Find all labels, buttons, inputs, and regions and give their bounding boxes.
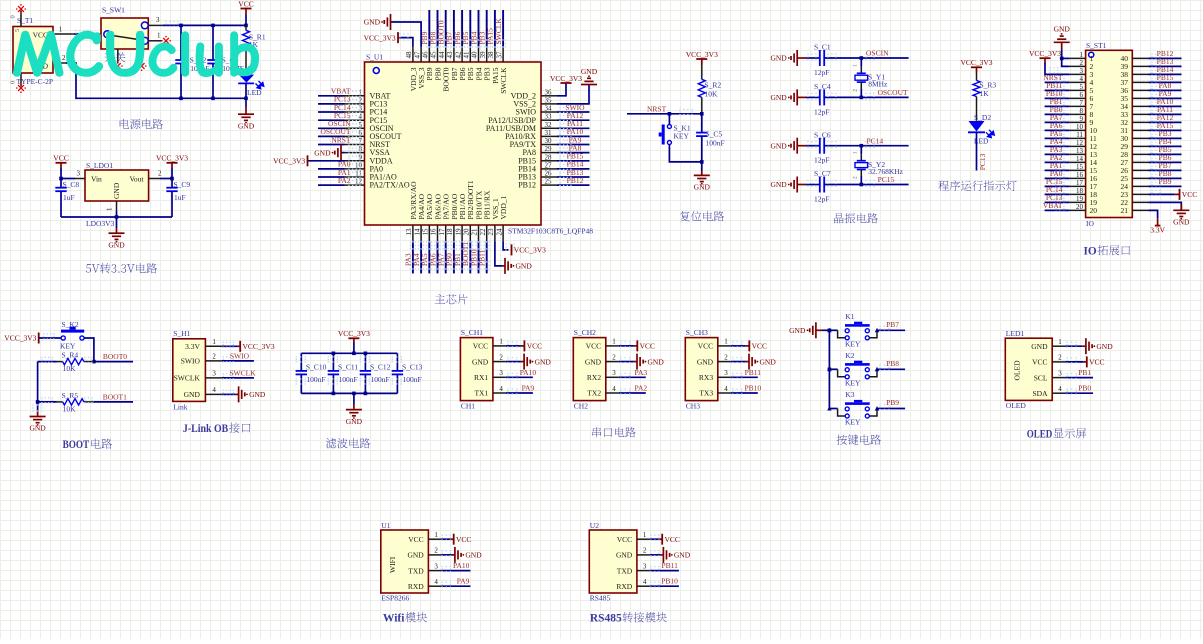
MCUclub logo	[14, 32, 258, 77]
svg-text:1K: 1K	[980, 89, 990, 98]
svg-text:S_C10: S_C10	[306, 362, 327, 371]
wire net PB0 (OLED)	[1065, 389, 1093, 395]
pin 16 of ST1	[1070, 171, 1086, 179]
ground GND (reset)	[694, 162, 711, 192]
wire net OSCOUT	[861, 93, 908, 100]
pin 4 of LED1	[1052, 385, 1065, 393]
net label PC15	[878, 175, 895, 184]
svg-text:GND: GND	[184, 390, 201, 399]
svg-text:3: 3	[612, 369, 616, 377]
pin 1 of ST1	[1070, 51, 1086, 59]
wire U1 VSSA to GND	[341, 147, 361, 153]
capacitor C12 (100nF)	[360, 353, 391, 393]
svg-text:VCC: VCC	[752, 342, 767, 351]
svg-text:Vin: Vin	[91, 175, 102, 184]
svg-text:15: 15	[1076, 163, 1084, 171]
svg-text:RX2: RX2	[587, 373, 601, 382]
svg-text:1: 1	[359, 88, 363, 96]
net label PA8 (ST1)	[1159, 81, 1172, 90]
pin 45 of U1 (PB8)	[430, 47, 443, 81]
net label PA12	[567, 111, 584, 120]
net label PA9 (U1)	[457, 577, 470, 586]
net label PB11	[745, 368, 762, 377]
svg-text:SWIO: SWIO	[181, 357, 201, 366]
net label BOOT0	[437, 20, 446, 44]
wire from U1 pin 25	[557, 180, 590, 186]
svg-text:STM32F103C8T6_LQFP48: STM32F103C8T6_LQFP48	[508, 227, 593, 236]
svg-text:IO: IO	[1086, 219, 1094, 228]
svg-text:GND: GND	[770, 180, 787, 189]
svg-text:21: 21	[1121, 206, 1129, 215]
pin 5 of T1 (top)	[10, 11, 22, 27]
wire CH3 GND	[731, 357, 749, 363]
svg-text:S_C1: S_C1	[814, 43, 831, 52]
junction at D1 bottom	[244, 97, 248, 101]
svg-text:10K: 10K	[63, 364, 77, 373]
svg-text:S_R4: S_R4	[62, 351, 79, 360]
wire CH2 RX	[619, 373, 646, 379]
svg-text:S_C4: S_C4	[814, 82, 831, 91]
ground GND (CH1)	[524, 354, 551, 370]
svg-text:OLED: OLED	[1027, 429, 1053, 441]
pin 19 of ST1	[1070, 195, 1086, 203]
crystal Y2 (32.768KHz)	[853, 146, 904, 185]
wire to U1 pin 38	[492, 10, 498, 48]
net label SWIO	[565, 103, 585, 112]
svg-text:WIFI: WIFI	[388, 556, 397, 573]
wire from U1 pin 33	[557, 115, 590, 121]
push button K2 (KEY)	[60, 320, 84, 351]
wire ST1 pin 33	[1149, 110, 1182, 116]
svg-text:S_CH2: S_CH2	[574, 328, 596, 337]
ground GND (keys)	[789, 322, 829, 338]
pin 4 of CH2	[606, 385, 619, 393]
net label PB10 (U2)	[661, 577, 678, 586]
net label PC14	[867, 136, 884, 145]
svg-text:3: 3	[499, 369, 503, 377]
power flag VCC_3V3 (ST1)	[1029, 49, 1061, 58]
svg-text:GND: GND	[1173, 218, 1190, 227]
net label PB1 (ST1)	[1050, 97, 1063, 106]
ground GND (PC14 side)	[770, 138, 806, 154]
svg-text:5: 5	[14, 29, 21, 32]
svg-text:K3: K3	[845, 390, 854, 399]
svg-text:2: 2	[434, 547, 438, 555]
net label PB13 (ST1)	[1157, 57, 1174, 66]
pin 1 of U1 (VBAT)	[345, 88, 391, 100]
svg-text:12: 12	[355, 178, 363, 186]
power flag VCC (CH3)	[749, 340, 767, 351]
net label PA9	[522, 384, 535, 393]
wire U1 VDD_1 to VCC_3V3	[503, 241, 515, 250]
svg-text:18: 18	[1076, 187, 1084, 195]
svg-text:VCC_3V3: VCC_3V3	[273, 157, 305, 166]
svg-text:S_ST1: S_ST1	[1086, 41, 1107, 50]
wire from U1 pin 15	[426, 241, 432, 273]
pin 28 of U1 (PB15)	[518, 153, 557, 165]
svg-text:GND: GND	[108, 240, 125, 249]
svg-text:100nF: 100nF	[339, 375, 358, 384]
LED D2	[968, 113, 994, 146]
wire ST1 pin 10	[1045, 126, 1070, 132]
svg-text:KEY: KEY	[845, 418, 861, 427]
section label BOOT电路	[63, 439, 112, 452]
ground GND (CH3)	[749, 354, 776, 370]
pin 1 of LDO1	[106, 201, 117, 211]
svg-text:41: 41	[463, 51, 471, 59]
svg-text:PB9: PB9	[886, 398, 899, 407]
svg-text:BOOT: BOOT	[63, 439, 90, 451]
svg-text:PC15: PC15	[878, 175, 895, 184]
wire ST1 pin 24	[1149, 182, 1182, 188]
svg-text:GND: GND	[238, 121, 255, 130]
wire to U1 pin 6	[318, 131, 361, 137]
pin 27 of U1 (PB14)	[518, 161, 557, 173]
svg-text:4: 4	[359, 113, 363, 121]
svg-text:KEY: KEY	[845, 378, 861, 387]
pin 4 of CH1	[493, 385, 506, 393]
wire U1 VSS_1 to GND	[495, 241, 505, 266]
svg-text:1: 1	[853, 151, 859, 154]
svg-text:GND: GND	[581, 67, 598, 76]
svg-text:GND: GND	[516, 262, 533, 271]
wire net BOOT0	[94, 361, 133, 363]
wire ST1 pin 23 to VCC	[1149, 190, 1180, 196]
net label BOOT1	[461, 242, 470, 266]
pin 19 of U1 (PB1/AO)	[454, 193, 467, 241]
svg-text:45: 45	[430, 51, 438, 59]
svg-text:38: 38	[487, 51, 495, 59]
svg-text:RS485: RS485	[590, 594, 611, 603]
net label PB11 (U2)	[661, 561, 678, 570]
pin 1 of SW1	[148, 32, 162, 41]
svg-text:1uF: 1uF	[174, 193, 186, 202]
net label SWCLK	[229, 368, 256, 377]
ground GND (OLED)	[1086, 338, 1113, 354]
net label PB14	[567, 160, 584, 169]
pin 43 of U1 (PB7)	[446, 47, 459, 81]
svg-text:VCC_3V3: VCC_3V3	[243, 342, 275, 351]
wire to U1 pin 40	[475, 10, 481, 48]
svg-text:10: 10	[355, 161, 363, 169]
svg-text:GND: GND	[1054, 25, 1071, 34]
MCU U1 (STM32F103C8T6_LQFP48)	[365, 53, 594, 236]
net label PB8 (key)	[886, 359, 899, 368]
wire from U1 pin 21	[475, 241, 481, 273]
svg-text:2: 2	[1080, 59, 1084, 67]
pin 15 of ST1	[1070, 163, 1086, 171]
svg-text:3: 3	[212, 369, 216, 377]
pin 3 of LDO1	[75, 170, 85, 179]
net label PB10	[469, 249, 478, 266]
ground GND (ST1 right)	[1173, 204, 1190, 226]
net label PB4	[469, 31, 478, 44]
pin 3 of CH1	[493, 369, 506, 377]
pin 29 of ST1	[1132, 145, 1148, 147]
svg-text:OSCIN: OSCIN	[866, 49, 889, 58]
net label PB7	[445, 31, 454, 44]
svg-text:16: 16	[430, 228, 438, 236]
svg-text:100nF: 100nF	[371, 375, 390, 384]
svg-text:PA9: PA9	[457, 577, 470, 586]
net label PB9 (key)	[886, 398, 899, 407]
net label PA4	[412, 253, 421, 266]
svg-text:TXD: TXD	[408, 566, 424, 575]
wire filter top rail	[301, 352, 397, 354]
svg-text:VCC: VCC	[698, 342, 713, 351]
svg-text:U1: U1	[381, 521, 390, 530]
svg-text:12pF: 12pF	[814, 156, 829, 165]
capacitor C10 (100nF)	[296, 353, 327, 393]
svg-text:PA9: PA9	[522, 384, 535, 393]
net label PA2	[338, 176, 351, 185]
wire to U1 pin 4	[318, 115, 361, 121]
svg-text:VCC: VCC	[473, 342, 488, 351]
pin 41 of U1 (PB5)	[463, 47, 476, 81]
net label PA11	[567, 119, 583, 128]
ground GND (BOOT)	[29, 402, 46, 433]
svg-text:VCC: VCC	[53, 154, 68, 163]
svg-text:VCC: VCC	[1089, 358, 1104, 367]
svg-text:3: 3	[643, 562, 647, 570]
wire ST1 pin 20	[1045, 206, 1070, 212]
svg-text:KEY: KEY	[674, 132, 690, 141]
svg-text:4: 4	[724, 385, 728, 393]
wire U1 VDD_2 to VCC_3V3	[557, 83, 566, 96]
resistor R5 (10K)	[38, 391, 94, 414]
pin 5 of ST1	[1070, 83, 1086, 91]
pin 2 of CH2	[606, 353, 619, 361]
svg-text:GND: GND	[770, 141, 787, 150]
svg-text:K1: K1	[845, 312, 854, 321]
power flag VCC_3V3 (H1)	[240, 341, 275, 352]
net label PA7 (ST1)	[1050, 113, 1063, 122]
net label PB3	[478, 31, 487, 44]
pin 39 of U1 (PB3)	[479, 47, 492, 81]
svg-text:39: 39	[479, 51, 487, 59]
pin 11 of U1 (PA1/AO)	[345, 170, 397, 182]
wire LED1 GND	[1065, 342, 1086, 348]
no-ERC marker on T1 pin 5	[16, 4, 26, 14]
module U2 (RS485)	[589, 521, 637, 603]
svg-text:SWIO: SWIO	[230, 351, 250, 360]
svg-text:2: 2	[724, 353, 728, 361]
power flag VCC_3V3 (filter)	[338, 329, 370, 338]
svg-text:1: 1	[724, 338, 728, 346]
net label OSCIN	[866, 49, 889, 58]
pin 32 of ST1	[1132, 121, 1148, 123]
wire ST1 pin 11	[1045, 134, 1070, 140]
ground GND (VSS_1)	[505, 258, 532, 274]
pin 36 of U1 (VDD_2)	[511, 88, 557, 100]
svg-text:18: 18	[446, 228, 454, 236]
section label 电源电路	[120, 119, 163, 129]
ground GND (filter)	[346, 393, 363, 425]
pin 23 of ST1	[1132, 193, 1148, 195]
svg-text:GND: GND	[694, 183, 711, 192]
svg-text:42: 42	[454, 51, 462, 59]
svg-text:OLED: OLED	[1006, 401, 1027, 410]
net label BOOT0	[103, 352, 127, 361]
svg-text:PB9: PB9	[1159, 177, 1172, 186]
svg-text:PC14: PC14	[867, 136, 884, 145]
pin 40 of U1 (PB4)	[471, 47, 484, 81]
junction at R5	[36, 400, 40, 404]
net label PA10 (U1)	[453, 561, 470, 570]
pin 3 of H1	[205, 369, 222, 378]
svg-text:12pF: 12pF	[814, 107, 829, 116]
wire VCC to R1	[245, 15, 247, 26]
net label PB15	[567, 152, 584, 161]
LED D1	[238, 64, 264, 97]
svg-text:Vout: Vout	[129, 175, 144, 184]
net label PA11 (ST1)	[1157, 105, 1173, 114]
svg-text:TYPE-C-2P: TYPE-C-2P	[17, 77, 54, 86]
wire CH1 TX	[506, 388, 533, 394]
wire ST1 pin 7	[1045, 102, 1070, 108]
section label IO拓展口	[1084, 245, 1131, 257]
svg-text:S_R5: S_R5	[62, 391, 79, 400]
pin 2 of LED1	[1052, 354, 1065, 362]
svg-text:GND: GND	[535, 357, 552, 366]
svg-text:15: 15	[422, 228, 430, 236]
svg-text:IO: IO	[1084, 246, 1097, 258]
svg-text:46: 46	[422, 51, 430, 59]
wire net PB1 (OLED)	[1065, 373, 1093, 379]
wire ST1 pin 21 to 3.3V	[1149, 210, 1158, 218]
pin 3 of CH3	[718, 369, 731, 377]
switch SW1	[101, 6, 148, 50]
wire ST1 pin 9	[1045, 118, 1070, 124]
svg-text:2: 2	[1058, 354, 1062, 362]
pin 37 of U1 (SWCLK)	[495, 47, 508, 94]
svg-text:TX1: TX1	[474, 389, 488, 398]
svg-text:GND: GND	[29, 424, 46, 433]
wire GND to ST1 pins 1-2	[1062, 50, 1070, 66]
svg-text:TX2: TX2	[587, 389, 601, 398]
wire U1 RXD	[441, 582, 470, 588]
pin 25 of U1 (PB12)	[518, 178, 557, 190]
svg-text:PB11: PB11	[745, 368, 762, 377]
net label PA1	[338, 168, 351, 177]
junction filter GND	[352, 392, 356, 396]
svg-text:0: 0	[10, 81, 17, 84]
pin 28 of ST1	[1132, 153, 1148, 155]
power flag VCC (LDO input)	[53, 154, 68, 168]
section label 晶振电路	[834, 213, 878, 223]
wire U1 GND	[441, 550, 454, 556]
wire from U1 pin 17	[443, 241, 449, 273]
net label PC13	[334, 95, 351, 104]
wire net PC14	[861, 141, 908, 148]
wire CH1 VCC	[506, 341, 524, 347]
svg-text:PB12: PB12	[567, 176, 584, 185]
svg-text:S_SW1: S_SW1	[102, 6, 125, 15]
junction at ST1 pin1	[1060, 57, 1064, 61]
wire net PB9	[877, 404, 905, 410]
svg-text:23: 23	[487, 228, 495, 236]
wire ST1 pin 8	[1045, 110, 1070, 116]
wire to U1 pin 5	[318, 123, 361, 129]
module U1 (ESP8266)	[381, 521, 429, 603]
wire CH3 TX	[731, 388, 758, 394]
svg-text:VDD_1: VDD_1	[499, 196, 508, 220]
pin 2 of CH1	[493, 353, 506, 361]
junction at OSCIN	[860, 56, 864, 60]
wire ST1 pin 30	[1149, 134, 1182, 140]
pin 1 of U1	[428, 531, 441, 539]
svg-text:RX3: RX3	[699, 373, 713, 382]
capacitor C13 (100nF)	[392, 353, 423, 393]
ground GND (VSS_2)	[581, 67, 598, 85]
wire GND to U1 VSS_3	[391, 22, 422, 47]
junction key K2	[828, 368, 832, 372]
pin 13 of ST1	[1070, 147, 1086, 155]
pin 17 of U1 (PA7/AO)	[438, 193, 451, 241]
svg-text:17: 17	[438, 228, 446, 236]
svg-text:GND: GND	[770, 93, 787, 102]
power flag VCC (ST1)	[1180, 189, 1198, 200]
pin 33 of ST1	[1132, 113, 1148, 115]
power flag VCC_3V3 (VDD_1)	[512, 244, 547, 255]
net label PB3 (ST1)	[1159, 129, 1172, 138]
svg-text:VCC: VCC	[456, 535, 471, 544]
net label PA10	[520, 368, 537, 377]
svg-text:BOOT0: BOOT0	[103, 352, 127, 361]
svg-text:LED: LED	[247, 88, 262, 97]
section label RS485转接模块	[590, 612, 667, 625]
svg-text:1: 1	[1080, 51, 1084, 59]
pin 38 of U1 (PA15)	[487, 47, 500, 84]
svg-text:S_H1: S_H1	[173, 329, 190, 338]
pin 5 of U1 (OSCIN)	[345, 121, 394, 133]
net label PB1	[453, 253, 462, 266]
pin 24 of ST1	[1132, 185, 1148, 187]
wire CH3 RX	[731, 373, 758, 379]
svg-text:VCC: VCC	[617, 535, 632, 544]
pin 9 of ST1	[1070, 115, 1086, 123]
ground GND (U2)	[663, 547, 690, 563]
pin 1 of CH1	[493, 338, 506, 346]
net label SWCLK	[494, 18, 503, 45]
svg-text:2: 2	[643, 547, 647, 555]
power flag VCC_3V3 (BOOT)	[4, 333, 38, 344]
svg-text:CH2: CH2	[574, 402, 588, 411]
svg-text:1: 1	[59, 26, 63, 34]
svg-text:12: 12	[1076, 139, 1084, 147]
net label PA2 (ST1)	[1050, 153, 1063, 162]
svg-text:K2: K2	[845, 351, 854, 360]
svg-text:J-Link OB: J-Link OB	[183, 423, 229, 435]
capacitor C8 (1uF)	[55, 179, 79, 218]
net label PB12 (ST1)	[1157, 49, 1174, 58]
wire CH2 GND	[619, 357, 637, 363]
pin 34 of U1 (SWIO)	[516, 105, 557, 117]
section label Wifi模块	[383, 612, 427, 624]
svg-text:40: 40	[471, 51, 479, 59]
pin 1 of LED1	[1052, 338, 1065, 346]
svg-text:20: 20	[1090, 206, 1098, 215]
svg-text:GND: GND	[472, 357, 489, 366]
net label PB7 (key)	[886, 320, 899, 329]
svg-text:10K: 10K	[63, 405, 77, 414]
ground GND (U1)	[455, 547, 482, 563]
pin 26 of U1 (PB13)	[518, 170, 557, 182]
power flag 3.3V (ST1)	[1150, 219, 1165, 235]
svg-text:2: 2	[158, 170, 162, 178]
net label NRST	[331, 135, 351, 144]
wire from U1 pin 31	[557, 131, 590, 137]
